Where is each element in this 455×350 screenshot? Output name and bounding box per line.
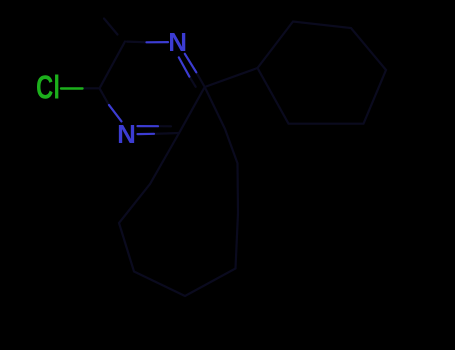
N1-C6 blue half [147,41,169,43]
C3-N4 dark half [154,132,179,135]
C6-C5 bond [100,42,126,89]
svg-text:Cl: Cl [36,69,60,106]
atom labels [36,27,187,149]
wire [83,19,387,297]
N4=C3 blue half main [138,133,155,136]
ring B chain [119,87,238,296]
C5-Cl dark half [83,87,100,89]
green chlorine bond half [61,87,83,89]
C6-N1 dark half [127,40,147,43]
N4=C3 inner stroke dark half [158,125,171,127]
svg-text:N: N [168,27,187,57]
N1=C2 blue half inner [179,57,190,76]
N4-C5 blue half [109,105,122,121]
N1=C2 inner stroke dark half [189,77,195,87]
blue nitrogen bond halves [109,42,196,134]
N1=C2 dark half [196,72,204,87]
C6 substituent stub [104,19,118,35]
C5-N4 dark half [100,88,110,106]
C2-ipsoA bond [205,68,258,87]
C3-ipsoB bond [150,133,179,184]
phenyl A ring [258,22,387,124]
C2-C3 bond [179,87,205,133]
N4=C3 blue half inner [138,125,159,127]
N1=C2 blue half main [185,54,197,73]
svg-text:N: N [117,119,136,149]
